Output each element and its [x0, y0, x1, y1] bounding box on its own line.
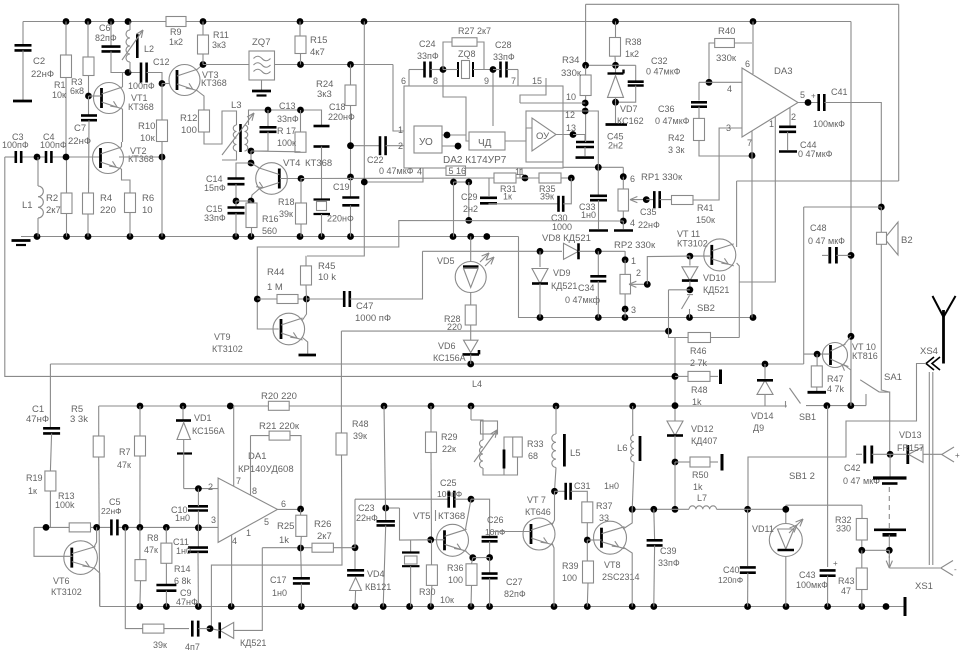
svg-text:47к: 47к: [117, 460, 131, 470]
svg-text:C23: C23: [358, 503, 375, 513]
svg-text:100пФ: 100пФ: [40, 140, 67, 150]
svg-text:C27: C27: [506, 577, 523, 587]
svg-text:RP1 330к: RP1 330к: [641, 172, 683, 183]
svg-text:R16: R16: [262, 214, 279, 224]
svg-text:SA1: SA1: [884, 372, 902, 383]
svg-text:39к: 39к: [279, 209, 293, 219]
svg-text:1: 1: [246, 528, 251, 538]
svg-text:КВ121: КВ121: [365, 582, 391, 592]
svg-text:0 47мкФ: 0 47мкФ: [646, 67, 681, 77]
svg-text:C41: C41: [831, 87, 848, 97]
svg-text:КТ368: КТ368: [128, 102, 154, 112]
svg-text:47к: 47к: [144, 545, 158, 555]
svg-text:XS4: XS4: [920, 346, 938, 357]
svg-text:47нФ: 47нФ: [176, 597, 198, 607]
svg-text:C12: C12: [153, 57, 170, 67]
svg-text:2: 2: [791, 112, 796, 122]
svg-text:КД407: КД407: [691, 436, 717, 446]
svg-text:10к: 10к: [440, 595, 454, 605]
svg-text:5: 5: [264, 517, 269, 527]
svg-text:10 k: 10 k: [318, 272, 336, 283]
svg-text:КД521: КД521: [551, 281, 577, 291]
svg-text:2н2: 2н2: [463, 204, 478, 214]
svg-text:330к: 330к: [561, 68, 582, 79]
svg-text:R2: R2: [46, 193, 58, 204]
svg-text:330: 330: [836, 524, 851, 534]
svg-text:R11: R11: [213, 30, 229, 40]
svg-text:R10: R10: [138, 121, 155, 132]
svg-text:2: 2: [398, 141, 403, 151]
svg-text:8: 8: [433, 76, 438, 86]
svg-text:R36: R36: [447, 563, 464, 573]
svg-text:VD7: VD7: [620, 104, 638, 114]
svg-text:КТ646: КТ646: [525, 507, 551, 517]
svg-text:1k: 1k: [692, 397, 702, 407]
svg-text:2SC2314: 2SC2314: [602, 572, 640, 582]
svg-text:КТ3102: КТ3102: [51, 587, 82, 597]
svg-text:100k: 100k: [55, 500, 75, 510]
svg-text:1: 1: [769, 119, 774, 129]
svg-text:1к2: 1к2: [625, 49, 639, 59]
svg-text:1н0: 1н0: [176, 546, 191, 556]
svg-text:10к: 10к: [140, 133, 156, 144]
svg-text:1н0: 1н0: [272, 588, 287, 598]
svg-text:КТ3102: КТ3102: [677, 239, 708, 249]
svg-text:КР140УД608: КР140УД608: [238, 464, 294, 475]
svg-text:2: 2: [208, 482, 213, 492]
svg-text:4: 4: [417, 167, 422, 177]
svg-text:220: 220: [447, 322, 462, 332]
svg-text:1к2: 1к2: [169, 37, 183, 47]
svg-text:7: 7: [747, 138, 752, 148]
svg-text:C40: C40: [723, 565, 740, 575]
svg-text:R26: R26: [314, 519, 331, 530]
svg-text:R30: R30: [419, 587, 436, 597]
svg-text:КТ816: КТ816: [852, 351, 878, 361]
svg-text:VT6: VT6: [53, 576, 70, 586]
svg-text:1k: 1k: [693, 482, 703, 492]
svg-text:XS1: XS1: [915, 581, 933, 592]
svg-text:22нФ: 22нФ: [356, 513, 378, 523]
svg-text:5: 5: [800, 90, 805, 100]
svg-text:R20 220: R20 220: [261, 391, 297, 402]
svg-text:0 47 мкФ: 0 47 мкФ: [808, 236, 845, 246]
svg-text:R41: R41: [697, 203, 714, 213]
svg-text:R37: R37: [596, 501, 613, 511]
svg-text:1 М: 1 М: [267, 282, 283, 293]
svg-text:47нФ: 47нФ: [26, 414, 49, 425]
svg-text:L5: L5: [570, 448, 581, 459]
svg-text:C13: C13: [279, 101, 296, 111]
svg-text:15: 15: [532, 76, 542, 86]
svg-text:R27 2к7: R27 2к7: [458, 26, 491, 36]
svg-text:R19: R19: [26, 473, 43, 483]
svg-text:КД521: КД521: [703, 285, 729, 295]
svg-text:VD6: VD6: [438, 341, 456, 351]
svg-text:4: 4: [232, 536, 237, 546]
svg-text:C42: C42: [844, 463, 861, 473]
svg-text:R7: R7: [119, 447, 131, 457]
svg-text:VT8: VT8: [604, 560, 621, 570]
svg-text:КТ368: КТ368: [305, 158, 332, 169]
svg-text:R21 220к: R21 220к: [259, 421, 300, 432]
svg-text:R47: R47: [827, 374, 844, 384]
svg-text:3: 3: [726, 123, 731, 133]
svg-text:C47: C47: [356, 301, 373, 312]
svg-text:1н0: 1н0: [175, 513, 190, 523]
svg-text:C31: C31: [574, 481, 591, 491]
svg-text:3к3: 3к3: [212, 40, 226, 50]
svg-text:VD5: VD5: [437, 256, 455, 266]
svg-text:КС156А: КС156А: [192, 426, 225, 436]
svg-text:C26: C26: [487, 515, 504, 525]
svg-text:33пФ: 33пФ: [493, 52, 515, 62]
svg-text:2к7: 2к7: [317, 531, 332, 542]
svg-text:VD10: VD10: [703, 273, 726, 283]
svg-text:C43: C43: [799, 570, 816, 580]
svg-text:22нФ: 22нФ: [638, 220, 660, 230]
svg-text:3к3: 3к3: [317, 89, 332, 100]
svg-text:4: 4: [727, 84, 732, 94]
svg-text:VT 11: VT 11: [677, 229, 700, 239]
svg-text:22нФ: 22нФ: [68, 136, 91, 147]
svg-text:68: 68: [528, 451, 538, 461]
svg-text:КТ3102: КТ3102: [212, 344, 243, 354]
svg-text:15пФ: 15пФ: [204, 183, 226, 193]
svg-text:L7: L7: [697, 493, 707, 503]
svg-text:VD9: VD9: [553, 268, 571, 278]
svg-text:VD14: VD14: [751, 411, 774, 421]
svg-text:1н0: 1н0: [581, 210, 596, 220]
svg-text:ОУ: ОУ: [536, 131, 550, 142]
svg-text:100пФ: 100пФ: [2, 140, 29, 150]
svg-text:VD8 КД521: VD8 КД521: [542, 233, 591, 244]
svg-text:100мкФ: 100мкФ: [796, 580, 828, 590]
svg-text:VD4: VD4: [367, 569, 385, 579]
svg-text:R25: R25: [277, 521, 294, 532]
svg-text:120пФ: 120пФ: [718, 575, 743, 585]
svg-text:1k: 1k: [279, 535, 289, 546]
svg-text:C24: C24: [419, 39, 436, 49]
svg-text:6: 6: [745, 59, 750, 69]
svg-text:R33: R33: [527, 439, 544, 449]
svg-text:L4: L4: [472, 379, 482, 389]
svg-text:0 47мкф: 0 47мкф: [565, 295, 601, 305]
svg-text:C39: C39: [660, 546, 677, 556]
svg-text:1к: 1к: [28, 486, 37, 496]
svg-text:C7: C7: [74, 123, 86, 134]
svg-text:33пФ: 33пФ: [417, 51, 439, 61]
svg-text:R 17: R 17: [277, 126, 296, 136]
svg-text:VD11: VD11: [752, 524, 774, 534]
svg-text:R38: R38: [625, 37, 642, 47]
svg-text:DA3: DA3: [774, 66, 792, 77]
svg-text:R34: R34: [562, 55, 579, 66]
svg-text:39к: 39к: [153, 640, 167, 650]
svg-text:L3: L3: [231, 100, 242, 111]
svg-text:C48: C48: [810, 223, 827, 233]
svg-text:220нФ: 220нФ: [327, 214, 354, 224]
svg-text:100к: 100к: [277, 138, 296, 148]
svg-text:SB1 2: SB1 2: [789, 471, 815, 482]
svg-text:+: +: [955, 451, 960, 460]
svg-text:R8: R8: [147, 533, 159, 543]
svg-text:SB2: SB2: [697, 303, 715, 314]
svg-text:B2: B2: [901, 235, 913, 246]
svg-text:3 3k: 3 3k: [70, 414, 88, 425]
svg-text:R15: R15: [310, 35, 327, 46]
svg-text:VD1: VD1: [194, 413, 212, 423]
svg-text:ZQ8: ZQ8: [458, 49, 476, 59]
svg-text:4к7: 4к7: [310, 47, 325, 58]
svg-text:22нФ: 22нФ: [101, 506, 122, 516]
svg-text:+: +: [833, 559, 838, 568]
svg-text:1к: 1к: [503, 192, 512, 202]
svg-text:2: 2: [636, 268, 641, 278]
svg-text:560: 560: [262, 226, 277, 236]
svg-text:82пФ: 82пФ: [95, 33, 117, 43]
svg-text:4п7: 4п7: [185, 642, 200, 652]
svg-text:R50: R50: [692, 470, 709, 480]
svg-text:C6: C6: [99, 23, 111, 33]
svg-text:C17: C17: [270, 575, 287, 585]
svg-text:2к7: 2к7: [46, 205, 61, 216]
svg-text:39к: 39к: [540, 192, 554, 202]
svg-text:КД521: КД521: [240, 638, 266, 648]
svg-text:10к: 10к: [52, 90, 66, 100]
svg-text:C35: C35: [640, 207, 657, 217]
svg-text:ЧД: ЧД: [478, 138, 492, 149]
svg-text:R43: R43: [838, 576, 855, 586]
svg-text:Д9: Д9: [753, 423, 764, 433]
svg-text:L2: L2: [144, 44, 154, 54]
svg-text:1000: 1000: [552, 222, 572, 232]
svg-text:R4: R4: [100, 193, 112, 204]
svg-text:100мкФ: 100мкФ: [813, 119, 845, 129]
svg-text:R45: R45: [318, 261, 335, 272]
svg-text:0 47мкФ: 0 47мкФ: [655, 116, 690, 126]
svg-text:3: 3: [631, 305, 636, 315]
svg-text:6: 6: [630, 174, 635, 184]
svg-text:22к: 22к: [442, 444, 456, 454]
svg-text:КТ368: КТ368: [128, 154, 154, 164]
svg-text:100: 100: [181, 125, 197, 136]
svg-text:1н0: 1н0: [604, 481, 619, 491]
svg-text:C18: C18: [329, 102, 346, 112]
svg-text:ZQ7: ZQ7: [252, 37, 270, 48]
svg-text:1: 1: [631, 256, 636, 266]
svg-text:33пФ: 33пФ: [658, 558, 680, 568]
svg-text:6: 6: [281, 499, 286, 509]
svg-text:R40: R40: [718, 26, 735, 37]
svg-text:VT 7: VT 7: [527, 495, 546, 505]
svg-text:R6: R6: [142, 193, 154, 204]
svg-text:220: 220: [100, 205, 116, 216]
svg-text:C29: C29: [461, 192, 478, 202]
svg-text:-: -: [954, 565, 957, 574]
svg-text:R42: R42: [668, 133, 685, 143]
svg-text:7: 7: [511, 76, 516, 86]
svg-text:L1: L1: [22, 200, 33, 211]
svg-text:10: 10: [566, 92, 576, 102]
svg-text:7: 7: [236, 476, 241, 486]
svg-text:220нФ: 220нФ: [328, 112, 355, 122]
svg-text:R1: R1: [54, 80, 66, 90]
svg-text:1000 пФ: 1000 пФ: [355, 313, 391, 324]
svg-text:VD12: VD12: [691, 424, 714, 434]
svg-text:C2: C2: [33, 56, 45, 67]
svg-text:R18: R18: [278, 197, 295, 207]
svg-text:L6: L6: [617, 443, 628, 454]
svg-text:5: 5: [449, 166, 454, 176]
svg-text:C36: C36: [658, 104, 675, 114]
svg-text:100: 100: [562, 573, 577, 583]
svg-text:R12: R12: [180, 113, 197, 124]
svg-text:2 7k: 2 7k: [690, 358, 708, 368]
svg-text:0 47мкФ: 0 47мкФ: [798, 149, 833, 159]
svg-text:VT9: VT9: [214, 332, 231, 342]
svg-text:VD13: VD13: [899, 430, 922, 440]
svg-text:R9: R9: [170, 27, 182, 37]
svg-text:150к: 150к: [696, 215, 715, 225]
svg-text:C32: C32: [651, 56, 668, 66]
svg-text:+: +: [811, 92, 816, 101]
svg-text:47: 47: [841, 586, 851, 596]
svg-text:КС156А: КС156А: [433, 353, 466, 363]
svg-text:3 3к: 3 3к: [668, 145, 685, 155]
svg-text:4 7k: 4 7k: [827, 384, 845, 394]
svg-text:C19: C19: [333, 182, 350, 192]
svg-text:R46: R46: [690, 346, 707, 356]
svg-text:VT4: VT4: [283, 158, 300, 169]
svg-text:VT5: VT5: [413, 511, 430, 522]
svg-text:100: 100: [448, 575, 463, 585]
svg-text:RP2 330к: RP2 330к: [614, 240, 656, 251]
svg-text:2н2: 2н2: [608, 141, 623, 151]
svg-text:FR157: FR157: [897, 443, 924, 453]
svg-text:39к: 39к: [353, 431, 367, 441]
svg-text:УО: УО: [419, 137, 433, 148]
svg-text:C25: C25: [440, 478, 457, 488]
svg-text:R29: R29: [441, 432, 458, 442]
svg-text:10: 10: [142, 205, 153, 216]
svg-text:R48: R48: [352, 419, 369, 429]
svg-text:R39: R39: [562, 561, 579, 571]
svg-text:8: 8: [252, 486, 257, 496]
svg-text:33пФ: 33пФ: [277, 114, 299, 124]
svg-text:C34: C34: [578, 283, 595, 293]
svg-text:100пФ: 100пФ: [437, 489, 462, 499]
svg-text:DA2 К174УР7: DA2 К174УР7: [443, 155, 507, 166]
svg-text:R48: R48: [691, 385, 708, 395]
svg-text:SB1: SB1: [799, 412, 816, 422]
svg-text:33пФ: 33пФ: [204, 213, 226, 223]
svg-text:330к: 330к: [716, 53, 737, 64]
svg-text:6к8: 6к8: [70, 86, 84, 96]
svg-text:6 8k: 6 8k: [174, 576, 192, 586]
svg-text:R44: R44: [267, 267, 284, 278]
svg-text:16: 16: [456, 166, 466, 176]
svg-text:22нФ: 22нФ: [31, 69, 54, 80]
svg-text:1: 1: [398, 125, 403, 135]
svg-text:4: 4: [630, 218, 635, 228]
svg-text:6: 6: [401, 76, 406, 86]
svg-text:КС162: КС162: [617, 116, 644, 126]
svg-text:КТ368: КТ368: [438, 511, 465, 522]
svg-text:3: 3: [211, 515, 216, 525]
svg-text:C22: C22: [367, 155, 384, 165]
svg-text:C28: C28: [495, 40, 512, 50]
svg-text:82пФ: 82пФ: [504, 589, 526, 599]
svg-text:КТ368: КТ368: [201, 78, 227, 88]
svg-text:100пФ: 100пФ: [128, 81, 155, 91]
svg-text:R14: R14: [174, 564, 191, 574]
svg-text:9: 9: [484, 76, 489, 86]
